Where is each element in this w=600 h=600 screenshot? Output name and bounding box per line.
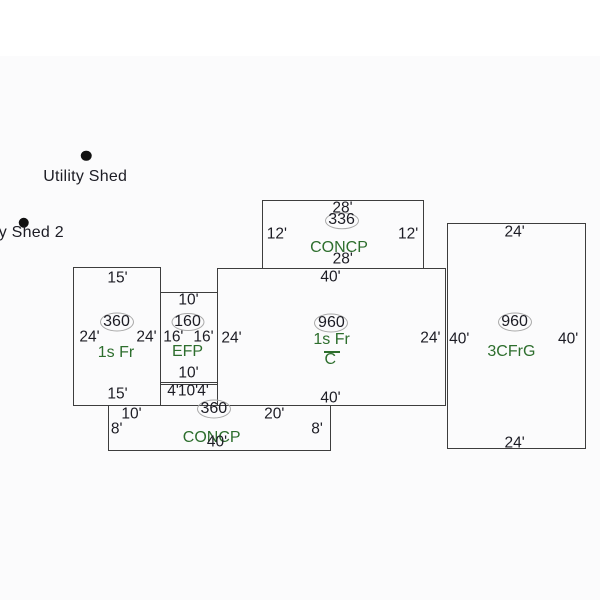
marker dot Utility Shed bbox=[81, 150, 92, 161]
label 336 bbox=[328, 212, 355, 228]
oval 360 bottom bbox=[197, 400, 231, 419]
marker dot Utility Shed 2 bbox=[18, 217, 29, 228]
label 4' below EFP left bbox=[167, 384, 179, 400]
area rect 1s Fr 360 (left) bbox=[73, 267, 161, 406]
label 4' below EFP right bbox=[197, 384, 209, 400]
wire segment bottom-rect top edge under EFP gap bbox=[160, 405, 218, 407]
oval 960 right bbox=[498, 312, 532, 331]
label 12' left of CONCP336 bbox=[267, 226, 287, 242]
label Utility Shed 2 bbox=[0, 225, 64, 241]
label 16' right of EFP bbox=[193, 330, 213, 346]
label C (center area) bbox=[325, 352, 337, 368]
label 40' top of center bbox=[320, 269, 340, 285]
label 15' bottom of 1sFr360 bbox=[107, 387, 127, 403]
wire strip top line under EFP bbox=[160, 384, 218, 385]
label 28' top of CONCP336 bbox=[332, 200, 352, 216]
label 10' below EFP bbox=[178, 384, 198, 400]
oval 960 center bbox=[314, 313, 348, 332]
label 24' right inside center bbox=[420, 330, 440, 346]
label 24' top of 3CFrG bbox=[504, 224, 524, 240]
label 24' left inside center bbox=[221, 330, 241, 346]
label 3CFrG bbox=[487, 344, 535, 360]
label 360 bottom bbox=[200, 401, 227, 417]
label 28' bottom of CONCP336 bbox=[333, 252, 353, 268]
label 40' right inside 3CFrG bbox=[558, 331, 578, 347]
label 1s Fr (left area) bbox=[98, 345, 134, 361]
area rect CONCP 360 (bottom) bbox=[108, 405, 332, 452]
oval 360 left bbox=[100, 312, 134, 331]
label 10' top of EFP bbox=[178, 292, 198, 308]
label 160 bbox=[174, 314, 201, 330]
label 24' right of 1sFr360 bbox=[136, 329, 156, 345]
area rect 1s Fr C 960 (center) bbox=[217, 268, 446, 406]
label EFP bbox=[172, 344, 203, 360]
label CONCP (bottom area) bbox=[183, 430, 241, 446]
label 12' right of CONCP336 bbox=[398, 226, 418, 242]
label Utility Shed bbox=[43, 169, 127, 185]
label 24' left of 1sFr360 bbox=[79, 329, 99, 345]
label 15' top of 1sFr360 bbox=[107, 270, 127, 286]
label 10' bottom of EFP bbox=[178, 365, 198, 381]
label 40' left inside 3CFrG bbox=[449, 331, 469, 347]
label 16' left of EFP bbox=[163, 330, 183, 346]
label 40' bottom of center bbox=[320, 390, 340, 406]
area rect CONCP 336 (top) bbox=[262, 200, 424, 269]
fraction line over C bbox=[324, 351, 340, 353]
label 10' top of bottom CONCP bbox=[121, 406, 141, 422]
label 24' bottom of 3CFrG bbox=[504, 436, 524, 452]
label 360 left bbox=[103, 314, 130, 330]
label 1s Fr (center area) bbox=[313, 332, 349, 348]
oval 336 bbox=[325, 212, 359, 230]
label 20' top of bottom CONCP bbox=[264, 406, 284, 422]
label 8' right of bottom CONCP bbox=[311, 421, 323, 437]
oval 160 bbox=[171, 313, 204, 331]
label CONCP (top area) bbox=[310, 240, 368, 256]
area rect 3CFrG 960 (right) bbox=[447, 223, 586, 449]
label 40' bottom of bottom CONCP bbox=[207, 434, 227, 450]
label 8' left of bottom CONCP bbox=[111, 421, 123, 437]
label 960 right bbox=[501, 314, 528, 330]
label 960 center bbox=[318, 315, 345, 331]
area rect EFP 160 bbox=[160, 292, 218, 383]
